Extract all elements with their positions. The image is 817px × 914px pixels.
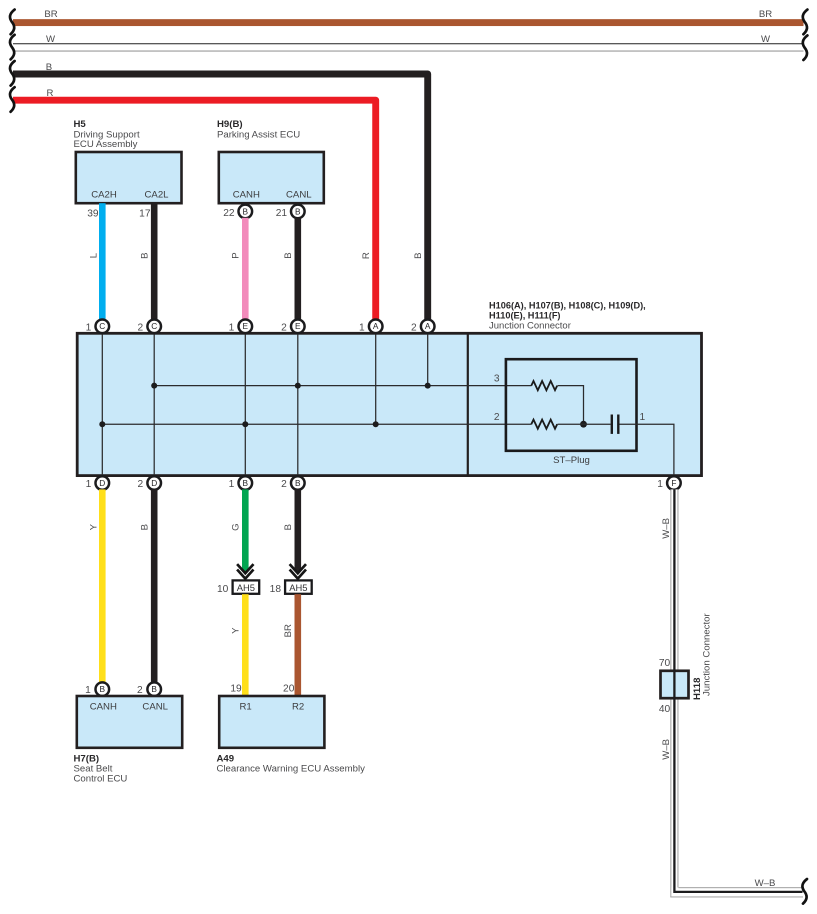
svg-text:19: 19 — [230, 683, 242, 694]
svg-text:Y: Y — [89, 523, 100, 530]
svg-text:2: 2 — [138, 479, 144, 490]
svg-text:H106(A), H107(B), H108(C), H10: H106(A), H107(B), H108(C), H109(D), — [489, 301, 646, 311]
break symbol left of wire W — [10, 35, 15, 60]
svg-text:17: 17 — [139, 209, 151, 220]
ECU box H5 (Driving Support ECU Assembly) — [76, 152, 182, 203]
ECU box H7(B) (Seat Belt Control ECU) — [77, 696, 182, 748]
svg-text:B: B — [413, 252, 424, 258]
wire Y (yellow) pin 1(D) to H7 CANH — [99, 489, 106, 682]
svg-text:P: P — [231, 252, 242, 258]
svg-text:B: B — [100, 684, 106, 694]
svg-text:B: B — [295, 478, 301, 488]
junction bottom pin 1(B) circle — [239, 476, 253, 490]
break symbol left of wire B — [10, 61, 15, 86]
junction bottom pin 2(D) circle — [147, 476, 161, 490]
junction top pin 2(C) circle — [147, 320, 161, 334]
upper bus wire (CAN low) — [154, 385, 531, 387]
svg-text:D: D — [151, 478, 157, 488]
svg-text:R: R — [361, 252, 372, 259]
wire from lower resistor to capacitor — [558, 423, 611, 425]
svg-text:G: G — [231, 523, 242, 530]
svg-text:AH5: AH5 — [237, 582, 255, 593]
shield arrow (double chevron) col4 — [290, 564, 306, 573]
wire from upper resistor to junction — [558, 386, 584, 425]
svg-text:BR: BR — [44, 9, 57, 20]
svg-text:22: 22 — [223, 208, 235, 219]
svg-text:W: W — [46, 34, 56, 45]
junction dot col6/upper — [425, 383, 431, 389]
svg-text:Junction Connector: Junction Connector — [489, 320, 571, 331]
junction dot col2/upper — [151, 383, 157, 389]
wire B (black) horizontal run turning down to pin 2(A) — [13, 74, 428, 320]
junction bottom pin 1(D) circle — [96, 476, 110, 490]
wire B (black) from H5 CA2L to pin 2(C) — [151, 203, 158, 320]
junction top pin 1(E) circle — [239, 320, 253, 334]
junction connector box H106-H111 — [77, 333, 701, 475]
svg-text:40: 40 — [659, 704, 671, 715]
svg-text:B: B — [283, 524, 294, 530]
svg-text:R2: R2 — [292, 702, 304, 713]
svg-text:B: B — [243, 206, 249, 216]
svg-text:1: 1 — [86, 322, 92, 333]
svg-text:ST–Plug: ST–Plug — [553, 455, 590, 466]
wire B (black) pin 2(D) to H7 CANL — [151, 489, 158, 682]
break symbol right of wire BR — [803, 10, 808, 35]
svg-text:H110(E), H111(F): H110(E), H111(F) — [489, 311, 561, 321]
svg-text:1: 1 — [85, 685, 91, 696]
terminating resistor R-upper — [531, 381, 557, 390]
svg-text:1: 1 — [359, 322, 365, 333]
svg-text:L: L — [89, 252, 100, 258]
ECU box H9(B) (Parking Assist ECU) — [219, 152, 324, 203]
terminating resistor R-lower — [531, 420, 557, 429]
capacitor C plate 1 — [611, 415, 613, 434]
wire BR (brown) top horizontal run — [13, 19, 804, 26]
svg-text:C: C — [99, 321, 105, 331]
internal wire column 2 (C-D) — [153, 333, 155, 475]
wire W-B (white/black) vertical run from pin 1(F) — [670, 489, 678, 897]
shield arrow (double chevron) col3 — [237, 564, 253, 573]
pin 1 circle B of H7(B) — [96, 682, 110, 696]
wire B (black) pin 2(B) to shield terminal — [295, 489, 302, 571]
internal wire column 1 (C-D) — [101, 333, 103, 475]
internal wire column 4 (E-B) — [297, 333, 299, 475]
svg-text:W–B: W–B — [755, 878, 776, 889]
wire B (black) from H9 CANL to pin 2(E) — [295, 218, 302, 320]
junction bottom pin 2(B) circle — [291, 476, 305, 490]
wire W (white) top horizontal run — [13, 43, 804, 52]
svg-text:2: 2 — [138, 322, 144, 333]
svg-text:Y: Y — [231, 627, 242, 634]
wire BR (brown) AH5 to A49 R2 — [295, 594, 302, 696]
svg-text:2: 2 — [411, 322, 417, 333]
ECU box A49 (Clearance Warning ECU Assembly) — [219, 696, 324, 748]
junction dot col5/lower — [373, 421, 379, 427]
svg-text:W: W — [761, 34, 771, 45]
svg-text:21: 21 — [276, 208, 288, 219]
junction connector box H118 — [661, 671, 689, 698]
wire P (pink) from H9 CANH to pin 1(E) — [242, 218, 249, 320]
shield connector box AH5 (col4) — [285, 580, 312, 593]
internal wire column 6 (A) to upper bus — [427, 333, 429, 385]
svg-text:Clearance Warning ECU Assembly: Clearance Warning ECU Assembly — [217, 764, 366, 775]
black tracer stripe of W-B wire — [674, 489, 802, 892]
svg-text:1: 1 — [229, 322, 235, 333]
svg-text:CA2H: CA2H — [91, 189, 117, 200]
wire G (green) pin 1(B) to shield terminal — [242, 489, 249, 571]
svg-text:1: 1 — [229, 479, 235, 490]
junction dot col1/lower — [99, 421, 105, 427]
svg-text:A: A — [425, 321, 431, 331]
shield connector box AH5 (col3) — [233, 580, 260, 593]
svg-text:CANL: CANL — [286, 189, 312, 200]
pin 22 circle B of H9(B) — [239, 205, 253, 219]
svg-text:CA2L: CA2L — [145, 189, 170, 200]
svg-text:BR: BR — [283, 624, 294, 637]
junction dot at resistor join — [580, 421, 587, 428]
svg-text:3: 3 — [494, 373, 500, 384]
svg-text:70: 70 — [659, 658, 671, 669]
capacitor C plate 2 — [617, 415, 619, 434]
junction dot col3/lower — [242, 421, 248, 427]
junction box internal divider — [467, 333, 469, 475]
svg-text:CANL: CANL — [142, 702, 168, 713]
svg-text:10: 10 — [217, 584, 229, 595]
svg-text:2: 2 — [137, 685, 143, 696]
svg-text:1: 1 — [640, 412, 646, 423]
svg-text:D: D — [99, 478, 105, 488]
ST-Plug inner box — [506, 359, 637, 451]
wire W-B horizontal run at bottom — [670, 887, 803, 897]
svg-text:CANH: CANH — [90, 702, 117, 713]
wire R (red) horizontal run turning down to pin 1(A) — [13, 100, 376, 320]
svg-text:2: 2 — [281, 479, 287, 490]
svg-text:ECU Assembly: ECU Assembly — [74, 139, 138, 150]
svg-text:Parking Assist ECU: Parking Assist ECU — [217, 130, 300, 141]
svg-text:2: 2 — [281, 322, 287, 333]
svg-text:F: F — [671, 478, 676, 488]
wire L (light blue) from H5 CA2H to pin 1(C) — [99, 203, 106, 320]
svg-text:W–B: W–B — [661, 518, 672, 539]
break symbol left of wire R — [10, 87, 15, 112]
svg-text:B: B — [139, 524, 150, 530]
junction dot col4/upper — [295, 383, 301, 389]
svg-text:B: B — [243, 478, 249, 488]
svg-text:18: 18 — [270, 584, 282, 595]
svg-text:B: B — [151, 684, 157, 694]
wire Y (yellow) AH5 to A49 R1 — [242, 594, 249, 696]
svg-text:2: 2 — [494, 412, 500, 423]
svg-text:Control ECU: Control ECU — [74, 773, 128, 784]
internal wire column 3 (E-B) — [244, 333, 246, 475]
svg-text:B: B — [295, 206, 301, 216]
break symbol left of wire BR — [10, 10, 15, 35]
svg-text:1: 1 — [86, 479, 92, 490]
wire from capacitor to pin 1(F) — [620, 424, 674, 475]
break symbol right of bottom W-B wire — [802, 879, 807, 904]
svg-text:Junction Connector: Junction Connector — [701, 613, 712, 696]
svg-text:E: E — [243, 321, 249, 331]
svg-text:BR: BR — [759, 9, 772, 20]
svg-text:E: E — [295, 321, 301, 331]
svg-text:R1: R1 — [239, 702, 251, 713]
svg-text:AH5: AH5 — [289, 582, 307, 593]
junction top pin 1(A) circle — [369, 320, 383, 334]
svg-text:1: 1 — [657, 479, 663, 490]
junction bottom pin 1(F) circle — [667, 476, 681, 490]
svg-text:20: 20 — [283, 683, 295, 694]
break symbol right of wire W — [803, 35, 808, 60]
svg-text:39: 39 — [87, 209, 99, 220]
pin 21 circle B of H9(B) — [291, 205, 305, 219]
svg-text:A: A — [373, 321, 379, 331]
svg-text:CANH: CANH — [233, 189, 260, 200]
junction top pin 1(C) circle — [96, 320, 110, 334]
svg-text:C: C — [151, 321, 157, 331]
svg-text:B: B — [46, 62, 52, 73]
svg-text:W–B: W–B — [661, 739, 672, 760]
junction top pin 2(A) circle — [421, 320, 435, 334]
svg-text:R: R — [47, 88, 54, 99]
svg-text:B: B — [139, 252, 150, 258]
lower bus wire (CAN high) — [102, 423, 531, 425]
junction top pin 2(E) circle — [291, 320, 305, 334]
pin 2 circle B of H7(B) — [147, 682, 161, 696]
svg-text:H5: H5 — [74, 119, 87, 130]
svg-text:H9(B): H9(B) — [217, 119, 243, 130]
internal wire column 5 (A) to lower bus — [375, 333, 377, 424]
svg-text:B: B — [283, 252, 294, 258]
